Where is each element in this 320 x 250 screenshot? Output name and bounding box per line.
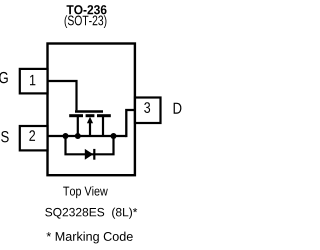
junction dot at diode anode branch xyxy=(63,133,69,139)
MOSFET Q1 body channel bar xyxy=(86,114,95,117)
pin 3 box xyxy=(135,98,161,124)
node S label xyxy=(1,131,9,142)
MOSFET Q1 body arrow (N-channel) xyxy=(87,117,93,123)
package outline TO-236 body xyxy=(48,44,135,176)
wire drain channel lead xyxy=(102,116,104,136)
wire body diode loop xyxy=(66,136,114,154)
body diode D1 cathode bar xyxy=(93,149,95,160)
pin 1 box xyxy=(20,69,48,94)
wire body lead xyxy=(89,121,91,136)
wire source rail from pin 2 xyxy=(48,135,127,137)
pin 1 number xyxy=(30,75,35,85)
part number SQ2328ES (8L)* xyxy=(45,208,137,219)
footnote * Marking Code xyxy=(47,232,133,244)
MOSFET Q1 gate plate xyxy=(75,110,103,112)
caption Top View xyxy=(63,186,108,198)
wire drain riser to pin 3 xyxy=(126,110,135,137)
junction dot at diode cathode branch xyxy=(111,133,117,139)
body diode D1 triangle xyxy=(85,149,93,160)
title TO-236 xyxy=(67,5,107,14)
pin 3 number xyxy=(144,102,150,113)
junction dot at source lead xyxy=(75,133,81,139)
MOSFET Q1 source channel bar xyxy=(69,114,83,117)
node D label xyxy=(174,103,182,114)
pin 2 box xyxy=(20,126,48,150)
wire gate lead from pin 1 xyxy=(48,81,77,110)
MOSFET Q1 drain channel bar xyxy=(97,114,111,117)
wire source lead xyxy=(77,116,79,136)
subtitle (SOT-23) xyxy=(65,15,107,28)
pin 2 number xyxy=(29,130,35,141)
node G label xyxy=(0,72,8,83)
